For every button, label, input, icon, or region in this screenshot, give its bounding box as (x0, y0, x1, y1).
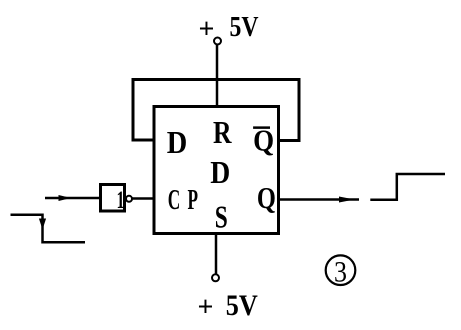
svg-text:C: C (168, 184, 181, 216)
svg-text:+: + (198, 292, 214, 323)
svg-text:1: 1 (117, 187, 125, 214)
svg-text:3: 3 (334, 256, 347, 289)
svg-text:S: S (215, 199, 228, 235)
svg-text:Q: Q (257, 180, 276, 215)
svg-text:P: P (188, 184, 199, 216)
svg-text:D: D (167, 124, 188, 160)
svg-text:+: + (199, 14, 215, 45)
svg-text:5V: 5V (226, 289, 258, 322)
svg-text:R: R (213, 114, 232, 150)
svg-text:D: D (210, 154, 230, 190)
svg-text:5V: 5V (230, 12, 259, 43)
